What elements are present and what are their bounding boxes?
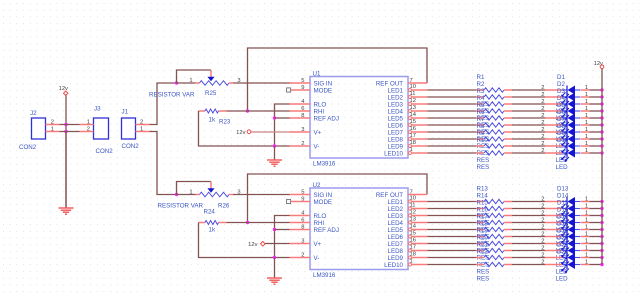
resistor R7 RES — [476, 116, 512, 150]
wire LED pin to resistor R22 — [428, 264, 477, 266]
wire LED pin to resistor R2 — [428, 96, 477, 98]
wire R24 left to V- rail — [199, 223, 290, 258]
junction dot bus D19 — [600, 242, 603, 245]
svg-text:12v: 12v — [248, 242, 257, 248]
junction dot bus D3 — [600, 102, 603, 105]
junction dot J2 pin1 net — [64, 130, 67, 133]
junction dot bus D21 — [600, 256, 603, 259]
svg-text:R1: R1 — [477, 74, 485, 81]
svg-text:1: 1 — [585, 127, 588, 133]
svg-text:12v: 12v — [236, 130, 245, 136]
svg-text:R13: R13 — [477, 186, 489, 193]
wire resistor R3 to diode D3 — [512, 103, 545, 105]
wire LED pin to resistor R20 — [428, 250, 477, 252]
svg-text:D18: D18 — [557, 221, 569, 228]
wire LED pin to resistor R8 — [428, 138, 477, 140]
svg-text:R25: R25 — [205, 90, 217, 97]
LED diode D8 — [541, 123, 589, 157]
svg-text:RLO: RLO — [314, 101, 327, 108]
svg-text:2: 2 — [541, 218, 544, 224]
wire diode D2 to 12v bus — [590, 96, 603, 98]
wire diode D10 to 12v bus — [590, 152, 603, 154]
svg-text:12v: 12v — [59, 86, 68, 92]
svg-text:1: 1 — [585, 92, 588, 98]
wire R24 to RHI pin — [227, 222, 290, 224]
connector J2 CON2 — [19, 110, 60, 151]
svg-text:REF OUT: REF OUT — [376, 80, 403, 87]
LED diode D6 — [541, 109, 589, 143]
resistor R24 1k — [199, 209, 227, 234]
wire diode D22 to 12v bus — [590, 264, 603, 266]
wire resistor R8 to diode D8 — [512, 138, 545, 140]
svg-text:1k: 1k — [209, 116, 216, 123]
svg-text:D2: D2 — [557, 81, 565, 88]
junction dot bus D22 — [600, 263, 603, 266]
LED diode D22 — [541, 249, 589, 283]
svg-text:2: 2 — [541, 246, 544, 252]
wire LED pin to resistor R10 — [428, 152, 477, 154]
resistor R13 RES — [476, 186, 512, 220]
svg-text:2: 2 — [541, 204, 544, 210]
wire J1 pin2 to top pot — [150, 83, 177, 125]
svg-text:LED1: LED1 — [388, 87, 404, 94]
svg-text:RHI: RHI — [314, 220, 325, 227]
svg-text:LM3916: LM3916 — [313, 272, 336, 279]
wire pot R25 wiper loop — [177, 70, 212, 83]
svg-text:2: 2 — [541, 106, 544, 112]
power port 12v left — [59, 86, 68, 96]
potentiometer R25 RESISTOR VAR — [149, 70, 241, 99]
svg-text:LED6: LED6 — [388, 122, 404, 129]
potentiometer R26 RESISTOR VAR — [158, 182, 241, 210]
wire resistor R18 to diode D18 — [512, 236, 545, 238]
LED diode D14 — [541, 193, 589, 227]
wire resistor R9 to diode D9 — [512, 145, 545, 147]
svg-text:2: 2 — [541, 239, 544, 245]
wire diode D7 to 12v bus — [590, 131, 603, 133]
LED diode D13 — [541, 186, 589, 220]
resistor R6 RES — [476, 109, 512, 143]
svg-text:1: 1 — [585, 148, 588, 154]
svg-text:1: 1 — [585, 134, 588, 140]
ground under U1 — [267, 146, 282, 166]
wire resistor R16 to diode D16 — [512, 222, 545, 224]
svg-text:CON2: CON2 — [122, 143, 140, 150]
wire pot R25 pin3 to SIG IN — [233, 82, 290, 84]
svg-text:REF ADJ: REF ADJ — [314, 115, 339, 122]
resistor R15 RES — [476, 200, 512, 234]
wire J2 to J3 row2 — [60, 131, 80, 133]
svg-text:2: 2 — [541, 127, 544, 133]
LED diode D7 — [541, 116, 589, 150]
wire LED pin to resistor R19 — [428, 243, 477, 245]
svg-text:2: 2 — [541, 99, 544, 105]
svg-text:D3: D3 — [557, 88, 565, 95]
svg-text:2: 2 — [541, 134, 544, 140]
svg-text:1: 1 — [585, 197, 588, 203]
svg-text:D9: D9 — [557, 130, 565, 137]
svg-text:12: 12 — [410, 210, 416, 216]
svg-text:1: 1 — [585, 85, 588, 91]
junction dot RHI net U1 — [246, 109, 249, 112]
svg-text:2: 2 — [541, 211, 544, 217]
svg-text:2: 2 — [541, 85, 544, 91]
svg-text:10: 10 — [410, 196, 416, 202]
wire diode D8 to 12v bus — [590, 138, 603, 140]
svg-text:CON2: CON2 — [96, 148, 114, 155]
svg-text:LED5: LED5 — [388, 115, 404, 122]
svg-text:1: 1 — [585, 260, 588, 266]
LED diode D19 — [541, 228, 589, 262]
op-amp IC U1 LM3916 — [287, 71, 428, 168]
svg-text:LED: LED — [556, 164, 569, 171]
svg-text:LED8: LED8 — [388, 248, 404, 255]
wire diode D18 to 12v bus — [590, 236, 603, 238]
svg-text:1: 1 — [585, 218, 588, 224]
svg-text:2: 2 — [541, 232, 544, 238]
svg-text:R17: R17 — [477, 214, 489, 221]
svg-text:1: 1 — [189, 189, 192, 195]
svg-text:RHI: RHI — [314, 108, 325, 115]
resistor R14 RES — [476, 193, 512, 227]
wire LED pin to resistor R6 — [428, 124, 477, 126]
resistor R18 RES — [476, 221, 512, 255]
wire 12v to V+ U1 — [251, 131, 290, 133]
svg-text:J3: J3 — [94, 106, 101, 113]
wire diode D6 to 12v bus — [590, 124, 603, 126]
svg-text:R14: R14 — [477, 193, 489, 200]
svg-text:16: 16 — [410, 238, 416, 244]
svg-text:LED2: LED2 — [388, 206, 404, 213]
junction dot bus D17 — [600, 228, 603, 231]
svg-text:D13: D13 — [557, 186, 569, 193]
wire LED pin to resistor R9 — [428, 145, 477, 147]
svg-text:LED4: LED4 — [388, 108, 404, 115]
wire resistor R7 to diode D7 — [512, 131, 545, 133]
svg-text:LED1: LED1 — [388, 199, 404, 206]
junction dot bus D7 — [600, 130, 603, 133]
power port 12v at U1 V+ — [236, 130, 251, 136]
svg-text:9: 9 — [301, 197, 304, 203]
wire LED pin to resistor R21 — [428, 257, 477, 259]
svg-text:J2: J2 — [30, 110, 37, 117]
svg-text:12: 12 — [410, 98, 416, 104]
svg-text:RES: RES — [477, 276, 490, 283]
svg-text:R9: R9 — [477, 130, 485, 137]
svg-text:1: 1 — [585, 106, 588, 112]
op-amp IC U2 LM3916 — [287, 182, 428, 279]
resistor R8 RES — [476, 123, 512, 157]
connector J1 CON2 — [122, 109, 150, 150]
wire 12v LED bus — [601, 69, 603, 265]
svg-text:6: 6 — [301, 106, 304, 112]
LED diode D17 — [541, 214, 589, 248]
svg-text:LED4: LED4 — [388, 220, 404, 227]
junction dot bus D13 — [600, 200, 603, 203]
svg-text:13: 13 — [410, 105, 416, 111]
svg-text:1: 1 — [585, 99, 588, 105]
junction dot bus D9 — [600, 144, 603, 147]
svg-text:2: 2 — [541, 113, 544, 119]
wire REF ADJ stub wire U1 — [275, 117, 290, 119]
svg-text:18: 18 — [410, 140, 416, 146]
junction dot bus D5 — [600, 116, 603, 119]
svg-text:15: 15 — [410, 119, 416, 125]
svg-text:R3: R3 — [477, 88, 485, 95]
resistor R19 RES — [476, 228, 512, 262]
svg-text:LED9: LED9 — [388, 143, 404, 150]
svg-text:D1: D1 — [557, 74, 565, 81]
svg-text:3: 3 — [301, 239, 304, 245]
svg-text:1: 1 — [585, 204, 588, 210]
svg-text:R20: R20 — [477, 235, 489, 242]
LED diode D5 — [541, 102, 589, 136]
svg-text:MODE: MODE — [314, 87, 333, 94]
svg-text:REF ADJ: REF ADJ — [314, 227, 339, 234]
wire LED pin to resistor R1 — [428, 89, 477, 91]
wire J1 pin1 to bottom pot — [150, 132, 177, 195]
svg-text:R22: R22 — [477, 249, 489, 256]
wire R23 left to V- rail — [199, 111, 290, 146]
svg-text:V+: V+ — [314, 129, 322, 136]
svg-text:R24: R24 — [204, 209, 216, 216]
LED diode D3 — [541, 88, 589, 122]
svg-text:LED7: LED7 — [388, 241, 404, 248]
svg-text:CON2: CON2 — [19, 144, 37, 151]
svg-text:U2: U2 — [313, 182, 321, 189]
connector J3 CON2 — [80, 106, 114, 156]
wire resistor R15 to diode D15 — [512, 215, 545, 217]
junction dot bus D10 — [600, 151, 603, 154]
svg-text:LED10: LED10 — [384, 262, 403, 269]
svg-text:D4: D4 — [557, 95, 565, 102]
wire diode D19 to 12v bus — [590, 243, 603, 245]
junction dot bus D15 — [600, 214, 603, 217]
svg-text:D8: D8 — [557, 123, 565, 130]
resistor R9 RES — [476, 130, 512, 164]
svg-text:RLO: RLO — [314, 213, 327, 220]
svg-text:1: 1 — [51, 126, 54, 132]
svg-text:J1: J1 — [122, 109, 129, 116]
svg-text:D15: D15 — [557, 200, 569, 207]
svg-text:2: 2 — [541, 141, 544, 147]
wire LED pin to resistor R17 — [428, 229, 477, 231]
svg-text:1: 1 — [585, 246, 588, 252]
svg-text:5: 5 — [301, 190, 304, 196]
resistor R22 RES — [476, 249, 512, 283]
svg-text:2: 2 — [541, 197, 544, 203]
svg-text:R19: R19 — [477, 228, 489, 235]
wire resistor R13 to diode D13 — [512, 201, 545, 203]
svg-text:9: 9 — [301, 85, 304, 91]
resistor R20 RES — [476, 235, 512, 269]
svg-text:LED6: LED6 — [388, 234, 404, 241]
junction dot V- ground U2 — [273, 256, 276, 259]
resistor R1 RES — [476, 74, 512, 108]
svg-text:11: 11 — [410, 203, 416, 209]
svg-text:18: 18 — [410, 252, 416, 258]
svg-text:R8: R8 — [477, 123, 485, 130]
svg-text:LED10: LED10 — [384, 150, 403, 157]
resistor R4 RES — [476, 95, 512, 129]
svg-text:V-: V- — [314, 255, 320, 262]
wire resistor R5 to diode D5 — [512, 117, 545, 119]
svg-text:2: 2 — [301, 253, 304, 259]
resistor R3 RES — [476, 88, 512, 122]
ground under J2 — [59, 132, 74, 215]
svg-text:D7: D7 — [557, 116, 565, 123]
junction dot REF ADJ U2 — [273, 228, 276, 231]
svg-text:1: 1 — [87, 119, 90, 125]
svg-text:2: 2 — [541, 148, 544, 154]
svg-text:R4: R4 — [477, 95, 485, 102]
junction dot REF ADJ U1 — [273, 116, 276, 119]
junction dot bus D18 — [600, 235, 603, 238]
svg-text:13: 13 — [410, 217, 416, 223]
resistor R16 RES — [476, 207, 512, 241]
svg-text:8: 8 — [301, 113, 304, 119]
svg-text:1: 1 — [585, 232, 588, 238]
svg-text:1: 1 — [410, 147, 413, 153]
wire diode D21 to 12v bus — [590, 257, 603, 259]
junction dot J2 pin2 net — [64, 123, 67, 126]
wire resistor R19 to diode D19 — [512, 243, 545, 245]
wire REF ADJ stub wire U2 — [275, 229, 290, 231]
wire J2 to J3 row1 — [60, 124, 80, 126]
svg-text:R7: R7 — [477, 116, 485, 123]
wire LED pin to resistor R14 — [428, 208, 477, 210]
wire diode D9 to 12v bus — [590, 145, 603, 147]
wire resistor R21 to diode D21 — [512, 257, 545, 259]
wire diode D3 to 12v bus — [590, 103, 603, 105]
svg-text:SIG IN: SIG IN — [314, 80, 333, 87]
svg-text:R10: R10 — [477, 137, 489, 144]
svg-text:16: 16 — [410, 126, 416, 132]
wire pot R26 wiper loop — [177, 182, 212, 195]
svg-text:5: 5 — [301, 78, 304, 84]
junction dot V- ground U1 — [273, 144, 276, 147]
wire resistor R14 to diode D14 — [512, 208, 545, 210]
svg-text:2: 2 — [541, 253, 544, 259]
svg-text:17: 17 — [410, 245, 416, 251]
wire RLO to REF ADJ to V- U2 — [275, 216, 290, 258]
svg-text:REF OUT: REF OUT — [376, 192, 403, 199]
junction dot pot R25 wiper loop — [175, 81, 178, 84]
resistor R17 RES — [476, 214, 512, 248]
svg-text:1: 1 — [585, 120, 588, 126]
wire resistor R6 to diode D6 — [512, 124, 545, 126]
wire diode D20 to 12v bus — [590, 250, 603, 252]
svg-text:LED5: LED5 — [388, 227, 404, 234]
wire resistor R17 to diode D17 — [512, 229, 545, 231]
svg-text:LED2: LED2 — [388, 94, 404, 101]
wire LED pin to resistor R4 — [428, 110, 477, 112]
wire LED pin to resistor R3 — [428, 103, 477, 105]
svg-text:RES: RES — [477, 164, 490, 171]
wire 12v to V+ U2 — [265, 243, 289, 245]
svg-text:1: 1 — [585, 211, 588, 217]
resistor R10 RES — [476, 137, 512, 171]
svg-text:R6: R6 — [477, 109, 485, 116]
svg-text:RES: RES — [477, 157, 490, 164]
svg-text:1: 1 — [585, 253, 588, 259]
svg-text:2: 2 — [541, 225, 544, 231]
svg-text:2: 2 — [541, 92, 544, 98]
svg-text:6: 6 — [301, 218, 304, 224]
wire 12v stem down to ground — [65, 95, 67, 208]
wire LED pin to resistor R16 — [428, 222, 477, 224]
svg-text:R18: R18 — [477, 221, 489, 228]
wire diode D5 to 12v bus — [590, 117, 603, 119]
resistor R21 RES — [476, 242, 512, 276]
svg-text:LED8: LED8 — [388, 136, 404, 143]
resistor R2 RES — [476, 81, 512, 115]
svg-text:1k: 1k — [209, 226, 216, 233]
svg-text:D19: D19 — [557, 228, 569, 235]
wire diode D16 to 12v bus — [590, 222, 603, 224]
svg-text:2: 2 — [301, 141, 304, 147]
wire resistor R1 to diode D1 — [512, 89, 545, 91]
junction dot bus D4 — [600, 109, 603, 112]
ground under U2 — [267, 258, 282, 285]
svg-text:2: 2 — [51, 119, 54, 125]
svg-text:MODE: MODE — [314, 199, 333, 206]
svg-text:D6: D6 — [557, 109, 565, 116]
svg-text:LED: LED — [556, 276, 569, 283]
svg-text:R21: R21 — [477, 242, 489, 249]
svg-text:R15: R15 — [477, 200, 489, 207]
svg-text:2: 2 — [541, 260, 544, 266]
svg-text:R16: R16 — [477, 207, 489, 214]
svg-text:R23: R23 — [219, 118, 231, 125]
svg-text:LED9: LED9 — [388, 255, 404, 262]
svg-text:R2: R2 — [477, 81, 485, 88]
wire diode D1 to 12v bus — [590, 89, 603, 91]
svg-text:1: 1 — [189, 78, 192, 84]
svg-text:LED3: LED3 — [388, 101, 404, 108]
svg-text:14: 14 — [410, 112, 417, 118]
wire diode D15 to 12v bus — [590, 215, 603, 217]
svg-text:1: 1 — [585, 141, 588, 147]
svg-text:14: 14 — [410, 224, 417, 230]
wire diode D13 to 12v bus — [590, 201, 603, 203]
wire REF OUT loop U2 — [248, 174, 428, 223]
svg-text:U1: U1 — [313, 71, 321, 78]
wire REF OUT loop U1 — [248, 48, 428, 111]
svg-text:1: 1 — [140, 126, 143, 132]
junction dot RHI net U2 — [246, 221, 249, 224]
LED diode D21 — [541, 242, 589, 276]
svg-text:LED7: LED7 — [388, 129, 404, 136]
LED diode D20 — [541, 235, 589, 269]
svg-text:1: 1 — [585, 225, 588, 231]
svg-text:1: 1 — [585, 239, 588, 245]
wire resistor R4 to diode D4 — [512, 110, 545, 112]
svg-text:R5: R5 — [477, 102, 485, 109]
resistor R23 1k — [199, 109, 231, 125]
svg-text:2: 2 — [140, 119, 143, 125]
junction dot bus D1 — [600, 88, 603, 91]
svg-text:17: 17 — [410, 133, 416, 139]
wire resistor R20 to diode D20 — [512, 250, 545, 252]
svg-text:D22: D22 — [557, 249, 569, 256]
svg-text:V-: V- — [314, 143, 320, 150]
LED diode D4 — [541, 95, 589, 129]
svg-text:D5: D5 — [557, 102, 565, 109]
LED diode D9 — [541, 130, 589, 164]
svg-text:10: 10 — [410, 84, 416, 90]
svg-text:V+: V+ — [314, 241, 322, 248]
